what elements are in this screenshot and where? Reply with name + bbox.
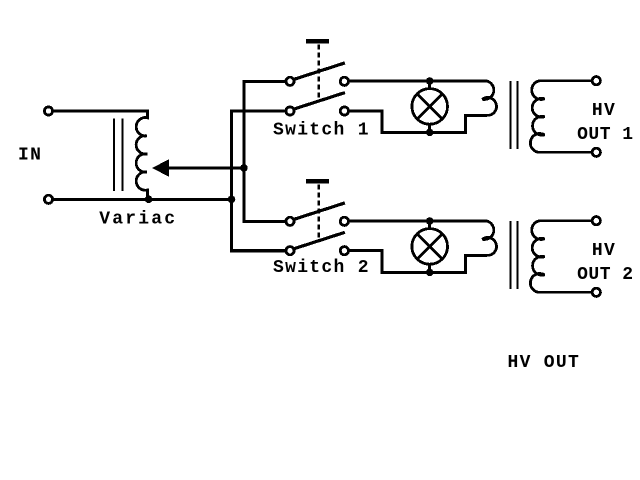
junction lamp L1 top [426, 77, 434, 85]
switch S2 handle bar [306, 179, 329, 184]
svg-text:Variac: Variac [99, 210, 177, 230]
variac wiper arrow [153, 160, 244, 176]
transformer T2 primary winding [482, 221, 496, 255]
switch S2 pole B left contact [286, 247, 294, 255]
switch S1 pole B left contact [286, 107, 294, 115]
transformer T1 primary winding [482, 81, 496, 115]
switch S1 pole A lever [294, 63, 345, 80]
wire S1 upper to transformer T1 primary [349, 80, 487, 83]
switch S2 pole B lever [294, 232, 345, 249]
transformer T2 secondary winding [530, 221, 591, 293]
transformer T1 secondary winding [530, 81, 591, 153]
terminal HV OUT 2 top [592, 217, 600, 225]
terminal IN top [44, 107, 52, 115]
junction lower bus / IN bottom [228, 196, 236, 204]
junction variac bottom tap [145, 196, 153, 204]
transformer T1 core [511, 81, 518, 149]
switch S1 pole B lever [294, 93, 345, 110]
switch S1 pole A left contact [286, 77, 294, 85]
wire bus lower poles (variac bottom to switch lower contacts) [232, 111, 286, 251]
svg-text:HV OUT: HV OUT [508, 353, 581, 373]
svg-text:Switch 1: Switch 1 [273, 121, 370, 141]
terminal IN bottom [44, 195, 52, 203]
svg-text:HV: HV [592, 241, 616, 261]
wire IN bottom (variac bottom net) [53, 198, 232, 201]
wire S1 lower to lamp L1 bottom to T1 primary return [349, 111, 487, 132]
switch S1 mechanical link (dashed) [318, 45, 320, 101]
junction lamp L2 bottom [426, 269, 434, 277]
wire bus upper poles (wiper to switch upper contacts) [244, 81, 286, 221]
variac core [114, 118, 123, 191]
switch S1 pole B right contact [340, 107, 348, 115]
junction lamp L1 bottom [426, 129, 434, 137]
variac winding [136, 110, 147, 200]
switch S1 handle bar [306, 39, 329, 44]
wire S2 lower to lamp L2 bottom to T2 primary return [349, 251, 487, 273]
switch S2 pole A right contact [340, 217, 348, 225]
terminal HV OUT 1 bottom [592, 148, 600, 156]
switch S2 mechanical link (dashed) [318, 185, 320, 241]
terminal HV OUT 1 top [592, 77, 600, 85]
svg-text:OUT 1: OUT 1 [577, 125, 634, 145]
svg-text:Switch 2: Switch 2 [273, 258, 370, 278]
svg-text:IN: IN [18, 146, 42, 166]
lamp L2 [412, 221, 448, 272]
switch S2 pole A lever [294, 203, 345, 220]
switch S2 pole A left contact [286, 217, 294, 225]
junction upper bus / wiper [240, 164, 248, 172]
lamp L1 [412, 81, 448, 132]
junction lamp L2 top [426, 217, 434, 225]
svg-text:HV: HV [592, 101, 616, 121]
svg-text:OUT 2: OUT 2 [577, 265, 634, 285]
switch S2 pole B right contact [340, 247, 348, 255]
wire IN top to variac [53, 110, 148, 113]
terminal HV OUT 2 bottom [592, 288, 600, 296]
wire S2 upper to transformer T2 primary [349, 220, 487, 223]
switch S1 pole A right contact [340, 77, 348, 85]
transformer T2 core [511, 221, 518, 289]
